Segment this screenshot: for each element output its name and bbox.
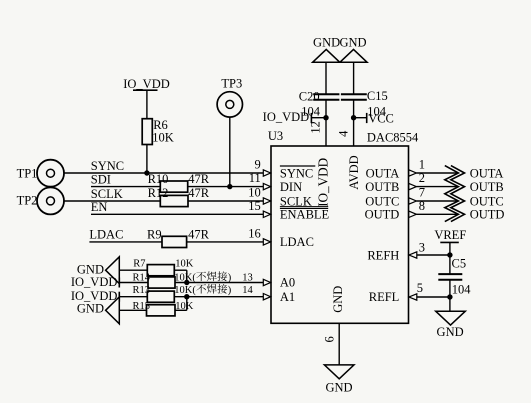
testpoint TP3 <box>217 92 242 117</box>
port chevrons (OUTA-OUTD, inner) <box>445 166 459 222</box>
label R12 <box>148 186 169 200</box>
label C5 <box>452 257 467 271</box>
svg-text:AVDD: AVDD <box>347 155 361 190</box>
value 10K(not-soldered) of R14 <box>174 271 231 283</box>
svg-text:IO_VDD: IO_VDD <box>316 158 331 207</box>
pin number 3 <box>419 241 425 255</box>
capacitor C15 <box>341 94 367 100</box>
wire SYNC net <box>64 172 271 174</box>
svg-text:VREF: VREF <box>434 228 466 242</box>
svg-text:A1: A1 <box>280 290 295 304</box>
power port IO_VDD (top, bar style) <box>123 77 170 91</box>
svg-text:14: 14 <box>242 285 253 296</box>
pin 15 arrow (ENABLE) <box>263 211 270 217</box>
pin number 6 (vertical) <box>322 336 336 342</box>
svg-text:7: 7 <box>419 186 425 200</box>
wire OUTD net <box>416 213 458 215</box>
svg-text:SDI: SDI <box>91 172 111 186</box>
pin number 12 (vertical) <box>308 121 322 134</box>
svg-text:10K(: 10K( <box>174 272 196 283</box>
svg-text:DAC8554: DAC8554 <box>367 130 419 144</box>
junction REFH/VREF/C5 <box>447 252 452 257</box>
wire LDAC net <box>89 241 271 243</box>
pin 3 arrow (REFH) <box>409 252 417 258</box>
testpoint TP1 label <box>17 166 38 180</box>
svg-text:IO_VDD: IO_VDD <box>263 110 310 124</box>
svg-text:15: 15 <box>248 199 261 213</box>
label GND (right) <box>437 325 464 339</box>
pin name REFH <box>367 248 399 262</box>
svg-text:A0: A0 <box>280 276 295 290</box>
port label OUTB <box>470 180 504 194</box>
svg-text:GND: GND <box>331 286 345 313</box>
net label LDAC <box>89 228 123 242</box>
svg-text:): ) <box>228 272 232 283</box>
junction on SDI at TP3 <box>227 184 232 189</box>
pin 13 arrow (A0) <box>263 279 270 285</box>
value 104 of C15 <box>367 105 387 119</box>
power port IO_VDD (bar) at R14 <box>118 278 120 288</box>
svg-text:12: 12 <box>308 121 322 134</box>
pin 5 arrow (REFL) <box>409 294 417 300</box>
svg-text:9: 9 <box>255 158 261 172</box>
net label SYNC <box>91 159 124 173</box>
wire OUTA net <box>416 172 458 174</box>
wire GND to R15 <box>119 309 160 311</box>
pin name ENABLE (active low) <box>280 207 330 222</box>
label GND at R7 <box>77 263 104 277</box>
svg-text:R14: R14 <box>133 272 151 283</box>
pin 14 arrow (A1) <box>263 294 270 300</box>
label R9 <box>147 228 162 242</box>
svg-text:TP1: TP1 <box>17 166 38 180</box>
port label OUTC <box>470 194 504 208</box>
svg-text:LDAC: LDAC <box>89 228 123 242</box>
svg-text:OUTC: OUTC <box>365 194 399 208</box>
part DAC8554 <box>367 130 419 144</box>
svg-text:OUTB: OUTB <box>365 180 399 194</box>
svg-text:GND: GND <box>339 36 366 50</box>
pin number 16 <box>248 226 261 240</box>
pin name LDAC <box>280 235 314 249</box>
svg-text:10: 10 <box>248 186 261 200</box>
svg-text:6: 6 <box>322 336 336 342</box>
svg-text:GND: GND <box>313 36 340 50</box>
svg-text:47R: 47R <box>188 186 210 200</box>
wire GND to R7 <box>119 269 160 271</box>
value 10K of R7 <box>175 259 194 270</box>
pin number 9 <box>255 158 261 172</box>
label GND (below chip) <box>325 380 352 394</box>
value 10K of R15 <box>175 301 194 312</box>
svg-text:47R: 47R <box>188 172 210 186</box>
svg-text:C20: C20 <box>299 89 320 103</box>
resistor R14 <box>148 277 175 288</box>
value 10K of R6 <box>152 131 174 145</box>
resistor R6 <box>142 119 152 145</box>
pin number 10 <box>248 186 261 200</box>
port label OUTA <box>470 166 504 180</box>
pin 11 arrow (DIN) <box>263 183 270 189</box>
capacitor C5 <box>438 274 462 280</box>
value 104 of C20 <box>301 105 321 119</box>
pin number 8 <box>419 199 425 213</box>
pin name GND (pin 6, vertical) <box>331 286 345 313</box>
svg-text:R7: R7 <box>133 259 145 270</box>
svg-text:SCLK: SCLK <box>91 187 123 201</box>
testpoint TP3 label <box>221 77 242 91</box>
svg-text:OUTD: OUTD <box>470 208 505 222</box>
junction pin4/C15/VCC <box>351 115 356 120</box>
pin number 2 <box>419 171 425 185</box>
pin number 14 <box>242 285 253 296</box>
junction on A1 <box>184 294 189 299</box>
wire GND to C15 <box>353 62 355 94</box>
svg-text:C5: C5 <box>452 257 467 271</box>
label R14 <box>133 272 151 283</box>
pin name REFL <box>369 290 400 304</box>
svg-text:OUTA: OUTA <box>366 166 400 180</box>
label C15 <box>367 89 388 103</box>
label C20 <box>299 89 320 103</box>
pin 7 arrow (OUTC output) <box>409 198 417 204</box>
label R15 <box>133 301 151 312</box>
svg-text:5: 5 <box>417 281 423 295</box>
power port GND (left, above C20) <box>313 36 341 63</box>
pin name IO_VDD (pin 12, vertical) <box>316 158 331 207</box>
svg-text:SYNC: SYNC <box>280 166 313 180</box>
wire A1 net <box>119 296 271 298</box>
pin 8 arrow (OUTD output) <box>409 211 417 217</box>
svg-text:10K: 10K <box>175 259 194 270</box>
label R13 <box>133 285 151 296</box>
svg-text:OUTB: OUTB <box>470 180 504 194</box>
wire IO_VDD bar to R6 <box>146 90 148 119</box>
svg-text:47R: 47R <box>188 228 210 242</box>
resistor R6 wire to SYNC net <box>146 144 148 174</box>
label R10 <box>148 172 169 186</box>
pin name OUTC <box>365 194 399 208</box>
svg-text:SYNC: SYNC <box>91 159 124 173</box>
svg-text:ENABLE: ENABLE <box>280 208 330 222</box>
wire C15 to chip pin 4 <box>353 100 355 146</box>
wire VREF to REFH <box>449 242 451 274</box>
pin number 5 <box>417 281 423 295</box>
wire OUTB net <box>416 186 458 188</box>
testpoint TP2 <box>37 187 64 214</box>
resistor R13 <box>147 291 174 302</box>
label IO_VDD at R13 <box>71 289 118 303</box>
wire IO_VDD to pin12 net <box>311 117 326 119</box>
value 47R of R9 <box>188 228 210 242</box>
svg-text:3: 3 <box>419 241 425 255</box>
wire C5 to GND <box>449 280 451 312</box>
resistor R15 <box>147 305 176 316</box>
svg-text:R13: R13 <box>133 285 151 296</box>
designator U3 <box>268 129 283 143</box>
pin 10 arrow (SCLK) <box>263 198 270 204</box>
svg-text:8: 8 <box>419 199 425 213</box>
value 10K(not-soldered) of R13 <box>174 284 231 296</box>
label IO_VDD at R14 <box>71 275 118 289</box>
resistor R12 <box>160 195 188 206</box>
resistor R7 <box>147 265 174 276</box>
pin name A1 <box>280 290 295 304</box>
power port VREF (bar) <box>434 228 466 242</box>
svg-text:R9: R9 <box>147 228 162 242</box>
value 104 of C5 <box>452 282 472 296</box>
testpoint TP2 label <box>17 194 38 208</box>
port chevrons (OUTA-OUTD, outer) <box>451 166 465 222</box>
svg-text:TP2: TP2 <box>17 194 38 208</box>
svg-text:4: 4 <box>337 130 351 137</box>
wire OUTC net <box>416 200 458 202</box>
svg-text:GND: GND <box>325 380 352 394</box>
pin number 7 <box>419 186 425 200</box>
value 47R of R12 <box>188 186 210 200</box>
wire pin 6 to ground <box>338 323 340 365</box>
junction on A0 <box>184 280 189 285</box>
svg-text:R10: R10 <box>148 172 169 186</box>
svg-text:OUTC: OUTC <box>470 194 504 208</box>
svg-text:OUTD: OUTD <box>365 208 400 222</box>
pin number 1 <box>419 158 425 172</box>
svg-text:10K: 10K <box>175 301 194 312</box>
junction pin12/C20/IO_VDD <box>323 115 328 120</box>
label R6 <box>153 118 168 132</box>
svg-text:1: 1 <box>419 158 425 172</box>
pin name OUTA <box>366 166 400 180</box>
svg-text:2: 2 <box>419 171 425 185</box>
pin 2 arrow (OUTB output) <box>409 183 417 189</box>
power port VCC (bar, at C15) <box>367 111 394 125</box>
svg-text:VCC: VCC <box>368 111 394 125</box>
pin 16 arrow (LDAC) <box>263 239 270 245</box>
net label SCLK <box>91 187 123 201</box>
value 47R of R10 <box>188 172 210 186</box>
svg-text:10K: 10K <box>152 131 174 145</box>
pin name AVDD (pin 4, vertical) <box>347 155 361 190</box>
svg-text:IO_VDD: IO_VDD <box>71 275 118 289</box>
svg-text:R12: R12 <box>148 186 169 200</box>
pin name SYNC (active low) <box>280 166 315 180</box>
svg-text:U3: U3 <box>268 129 283 143</box>
pin 1 arrow (OUTA output) <box>409 170 417 176</box>
svg-text:): ) <box>228 285 232 296</box>
pin name SCLK <box>280 194 312 208</box>
wire R7 to A0 corner <box>174 270 187 282</box>
pin name A0 <box>280 276 295 290</box>
svg-text:OUTA: OUTA <box>470 166 504 180</box>
svg-text:REFH: REFH <box>367 248 399 262</box>
svg-text:10K(: 10K( <box>174 285 196 296</box>
ground symbol (below chip) <box>324 365 354 379</box>
junction REFL/C5 <box>447 294 452 299</box>
svg-text:104: 104 <box>452 282 472 296</box>
wire GND to C20 <box>325 62 327 94</box>
pin number 15 <box>248 199 261 213</box>
resistor R10 <box>160 181 187 192</box>
svg-text:EN: EN <box>91 200 108 214</box>
pin number 11 <box>249 171 261 185</box>
net label SDI <box>91 172 111 186</box>
wire A0 net <box>119 282 271 284</box>
svg-text:IO_VDD: IO_VDD <box>123 77 170 91</box>
power port IO_VDD (bar) at R13 <box>118 292 120 302</box>
capacitor C20 <box>313 94 339 100</box>
svg-text:13: 13 <box>242 272 253 283</box>
testpoint TP1 <box>37 160 64 187</box>
wire EN net <box>91 213 271 215</box>
junction on SYNC at R6 <box>144 170 149 175</box>
wire SDI net <box>91 186 271 188</box>
svg-text:TP3: TP3 <box>221 77 242 91</box>
wire R15 to A1 corner <box>174 297 187 311</box>
wire VCC to pin4 net <box>354 117 367 119</box>
power port GND (right, above C15) <box>339 36 367 63</box>
pin name OUTD <box>365 208 400 222</box>
pin 9 arrow (SYNC) <box>263 170 270 176</box>
wire REFH net <box>417 254 450 256</box>
ground symbol (right of chip) <box>436 311 466 325</box>
power port GND (arrow) at R15 <box>106 297 120 324</box>
pin name DIN <box>280 180 302 194</box>
pin number 13 <box>242 272 253 283</box>
svg-text:GND: GND <box>437 325 464 339</box>
wire C20 to chip pin 12 <box>325 100 327 146</box>
svg-text:11: 11 <box>249 171 261 185</box>
power port GND (arrow) at R7 <box>106 257 120 284</box>
pin name OUTB <box>365 180 399 194</box>
label R7 <box>133 259 145 270</box>
svg-text:LDAC: LDAC <box>280 235 314 249</box>
svg-text:C15: C15 <box>367 89 388 103</box>
svg-text:16: 16 <box>248 226 261 240</box>
power port IO_VDD (bar, at C20) <box>263 110 312 124</box>
svg-text:GND: GND <box>77 301 104 315</box>
op-amp/DAC U3 body <box>271 146 409 323</box>
wire SCLK net <box>64 200 271 202</box>
svg-text:REFL: REFL <box>369 290 400 304</box>
wire REFL net <box>417 296 450 298</box>
pin number 4 (vertical) <box>337 130 351 137</box>
resistor R9 <box>162 236 187 247</box>
port label OUTD <box>470 208 505 222</box>
svg-text:DIN: DIN <box>280 180 302 194</box>
svg-text:R15: R15 <box>133 301 151 312</box>
label GND at R15 <box>77 301 104 315</box>
net label EN <box>91 200 108 214</box>
wire TP3 to SDI net <box>229 117 231 187</box>
